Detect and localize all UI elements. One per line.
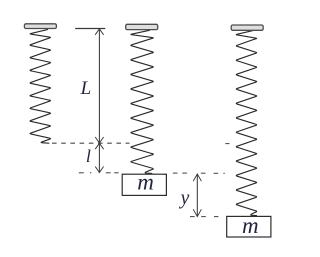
svg-text:l: l xyxy=(86,146,91,166)
svg-text:m: m xyxy=(242,213,259,238)
svg-text:L: L xyxy=(80,78,92,99)
svg-text:y: y xyxy=(179,188,190,209)
svg-text:m: m xyxy=(137,170,154,195)
